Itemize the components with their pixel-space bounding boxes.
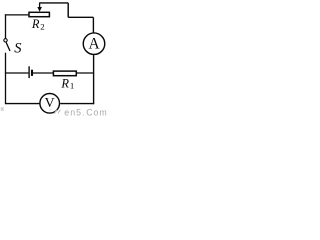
svg-text:2: 2 [40,22,44,32]
wire: bottom wire left segment [6,103,40,105]
wire: top wire to R2 left terminal [5,14,29,16]
wire: R1 right lead to right rail [76,72,93,74]
rheostat slider arrowhead [37,7,42,12]
wire: step-down vertical [67,3,69,17]
voltmeter V [40,94,60,114]
watermark dot near voltmeter [50,109,52,111]
svg-text:Com: Com [86,107,108,117]
svg-text:R: R [31,17,40,31]
svg-text:A: A [88,36,99,53]
wire: left rail upper segment [5,14,7,38]
switch S circle [4,39,7,42]
battery long plate [28,66,30,78]
resistor R1 [53,71,76,76]
wire: right rail (ammeter bottom to corner) [93,54,95,104]
wire: bottom wire right segment [60,103,94,105]
wire: battery to R1 [33,72,53,74]
svg-text:1: 1 [70,81,74,91]
battery short thick plate [31,70,33,76]
switch S blade [6,42,10,51]
wire: middle wire rail to battery [5,72,29,74]
wire: horizontal toward ammeter [68,16,93,18]
svg-text:R: R [60,76,69,90]
svg-text:en5.: en5. [64,107,85,117]
wire: slider top horizontal [39,2,68,4]
watermark marks [54,110,60,114]
resistor R2 (rheostat body) [29,12,49,16]
wire: down to ammeter top [92,17,94,33]
wire: left rail lower segment [5,53,7,104]
svg-text:S: S [14,41,22,57]
watermark bottom-left mark [1,107,5,111]
ammeter A [83,33,105,55]
rheostat slider arrow shaft [39,3,41,8]
